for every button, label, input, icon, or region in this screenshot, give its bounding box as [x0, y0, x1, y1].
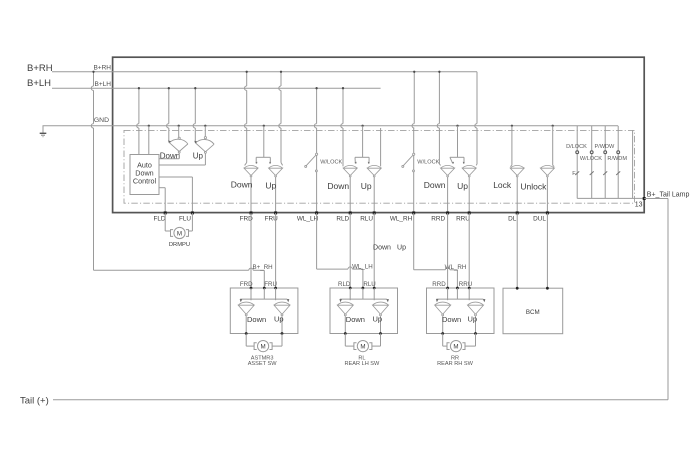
svg-text:FLD: FLD	[153, 215, 165, 222]
svg-text:M: M	[261, 343, 266, 350]
svg-text:DL: DL	[508, 215, 517, 222]
svg-text:Down: Down	[373, 245, 391, 252]
svg-text:Up: Up	[373, 315, 383, 324]
svg-text:Down: Down	[327, 181, 349, 191]
svg-text:RRD: RRD	[432, 281, 446, 288]
svg-text:REAR LH SW: REAR LH SW	[344, 361, 380, 367]
svg-text:R/WDM: R/WDM	[607, 156, 627, 162]
svg-text:Down: Down	[231, 180, 253, 190]
svg-text:FLU: FLU	[179, 215, 191, 222]
svg-text:F: F	[572, 171, 576, 177]
svg-text:Down: Down	[247, 315, 266, 324]
svg-text:Unlock: Unlock	[520, 181, 547, 191]
svg-text:GND: GND	[94, 117, 109, 124]
svg-text:DRMPU: DRMPU	[169, 242, 190, 248]
svg-text:FRU: FRU	[264, 281, 277, 288]
svg-text:RRU: RRU	[456, 215, 470, 222]
svg-text:13: 13	[635, 201, 643, 208]
svg-text:Up: Up	[274, 315, 284, 324]
svg-text:Tail (+): Tail (+)	[20, 395, 49, 406]
svg-text:Up: Up	[457, 181, 468, 191]
svg-text:M: M	[453, 343, 458, 350]
svg-text:B+_RH: B+_RH	[253, 264, 273, 271]
svg-text:M: M	[177, 230, 182, 237]
svg-text:RLU: RLU	[360, 215, 373, 222]
svg-text:WL_LH: WL_LH	[297, 215, 319, 222]
svg-text:Lock: Lock	[493, 180, 512, 190]
svg-text:Up: Up	[468, 315, 478, 324]
svg-text:BCM: BCM	[526, 309, 540, 316]
svg-text:DUL: DUL	[533, 215, 546, 222]
svg-text:Up: Up	[397, 245, 406, 252]
svg-text:ASSET SW: ASSET SW	[248, 361, 278, 367]
svg-text:Up: Up	[361, 181, 372, 191]
svg-text:RLU: RLU	[363, 281, 375, 288]
svg-text:P/WDW: P/WDW	[594, 144, 615, 150]
svg-text:FRD: FRD	[240, 281, 253, 288]
svg-text:M: M	[360, 343, 365, 350]
svg-text:Up: Up	[265, 180, 276, 190]
svg-text:D/LOCK: D/LOCK	[566, 144, 587, 150]
svg-text:B+LH: B+LH	[27, 78, 51, 89]
svg-text:Down: Down	[346, 315, 365, 324]
svg-text:FRU: FRU	[265, 215, 279, 222]
svg-text:WL_RH: WL_RH	[390, 215, 413, 222]
svg-text:Down: Down	[442, 315, 461, 324]
svg-text:WL_LH: WL_LH	[352, 264, 373, 271]
svg-text:Control: Control	[133, 177, 157, 186]
svg-text:RRU: RRU	[459, 281, 472, 288]
svg-text:RLD: RLD	[338, 281, 351, 288]
svg-text:W/LOCK: W/LOCK	[580, 156, 602, 162]
svg-text:RRD: RRD	[431, 215, 445, 222]
svg-text:B+RH: B+RH	[93, 65, 111, 72]
svg-text:REAR RH SW: REAR RH SW	[437, 361, 473, 367]
svg-text:RLD: RLD	[336, 215, 349, 222]
svg-text:W/LOCK: W/LOCK	[320, 159, 342, 165]
svg-text:B+_Tail Lamp: B+_Tail Lamp	[647, 192, 690, 199]
svg-text:B+RH: B+RH	[27, 63, 53, 74]
svg-text:Down: Down	[424, 180, 446, 190]
svg-text:Up: Up	[193, 152, 204, 161]
svg-text:B+LH: B+LH	[95, 81, 112, 88]
svg-text:W/LOCK: W/LOCK	[417, 159, 439, 165]
